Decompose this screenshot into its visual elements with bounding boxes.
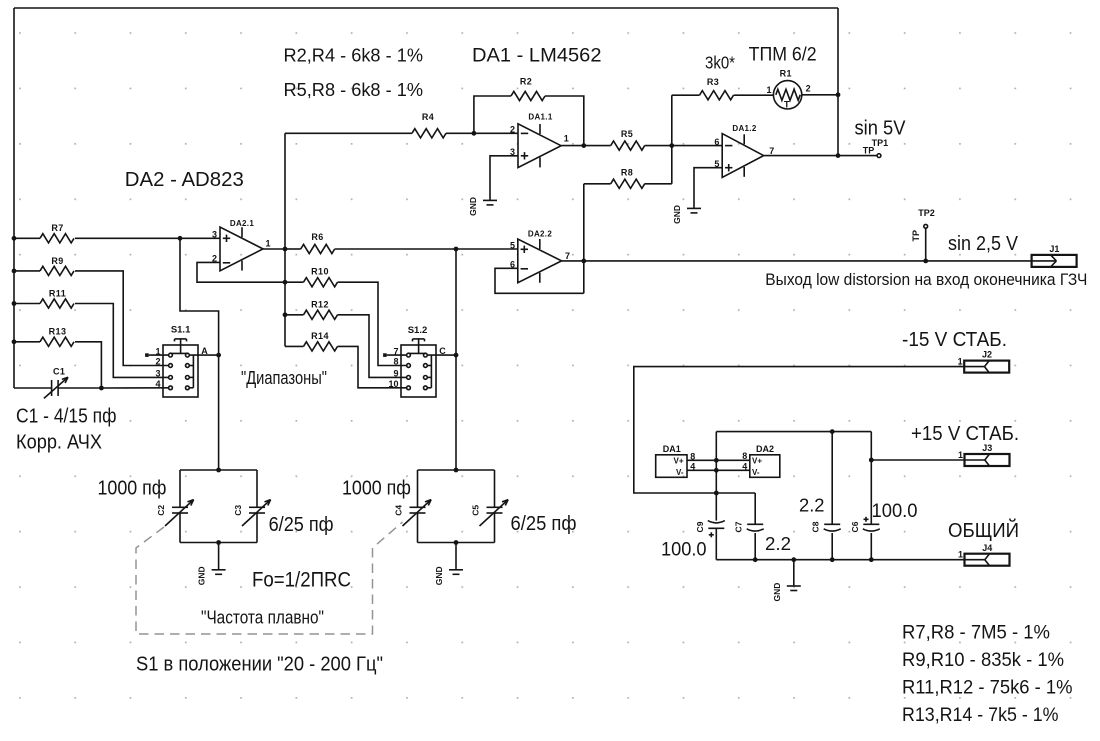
wire tank1 top xyxy=(180,469,257,471)
resistor R13 xyxy=(14,327,101,388)
svg-text:2: 2 xyxy=(806,83,811,93)
svg-text:R1: R1 xyxy=(780,68,792,78)
svg-text:4: 4 xyxy=(742,461,747,471)
label output note xyxy=(765,271,1087,289)
node R7 output junction xyxy=(178,236,183,241)
thermistor R1 xyxy=(766,68,810,109)
wire feedback loop top xyxy=(14,7,838,9)
label C9 value 100.0 xyxy=(661,540,707,561)
op-amp DA2.2 xyxy=(510,229,570,282)
svg-text:6/25 пф: 6/25 пф xyxy=(269,514,334,536)
wire feedback loop right drop to output xyxy=(837,8,839,156)
svg-text:3: 3 xyxy=(212,230,217,240)
svg-text:"Диапазоны": "Диапазоны" xyxy=(241,368,327,388)
capacitor C3 variable xyxy=(233,470,271,543)
node C1 R13 junction xyxy=(99,386,104,391)
svg-text:2: 2 xyxy=(510,125,515,135)
node A junction xyxy=(216,353,221,358)
svg-text:GND: GND xyxy=(772,583,782,602)
svg-text:9: 9 xyxy=(393,369,398,379)
svg-text:100.0: 100.0 xyxy=(661,540,707,561)
resistor R2 feedback xyxy=(474,77,584,146)
svg-text:1000 пф: 1000 пф xyxy=(342,478,411,500)
svg-text:C6: C6 xyxy=(850,521,860,532)
wire R8 to DA2.2 output vertical xyxy=(583,184,585,293)
svg-text:1000 пф: 1000 пф xyxy=(98,478,167,500)
capacitor C9 xyxy=(695,521,725,560)
wire power pins vertical xyxy=(715,432,717,521)
label S1 position xyxy=(136,654,383,676)
label R11 R12 values xyxy=(902,678,1073,699)
svg-text:1: 1 xyxy=(766,85,771,95)
wire tank1 to ground xyxy=(218,543,220,570)
svg-text:"Частота плавно": "Частота плавно" xyxy=(201,607,324,627)
ground tank1 xyxy=(197,566,226,585)
svg-text:R12: R12 xyxy=(311,299,329,309)
resistor R8 xyxy=(584,167,672,188)
node sin5V junction xyxy=(836,153,841,158)
svg-text:S1 в положении "20 - 200 Гц": S1 в положении "20 - 200 Гц" xyxy=(136,654,383,676)
wire tank2 top xyxy=(418,469,495,471)
label 6/25 pf tank2 xyxy=(511,513,577,535)
svg-text:R10: R10 xyxy=(311,267,329,277)
resistor R10 xyxy=(285,267,407,366)
svg-text:C5: C5 xyxy=(471,505,481,516)
label R7 R8 values xyxy=(902,623,1050,644)
svg-text:6: 6 xyxy=(714,137,719,147)
ground tank2 xyxy=(434,566,463,585)
svg-text:-15 V СТАБ.: -15 V СТАБ. xyxy=(902,329,1007,351)
svg-text:7: 7 xyxy=(769,146,774,156)
ground DA1.2 xyxy=(672,205,701,224)
svg-text:1: 1 xyxy=(958,550,963,560)
wire DA1.1 output row xyxy=(561,145,611,147)
svg-text:J4: J4 xyxy=(982,543,992,553)
node loop top junction xyxy=(836,92,841,97)
svg-text:V+: V+ xyxy=(673,457,683,466)
svg-text:Fo=1/2ПRC: Fo=1/2ПRC xyxy=(252,569,351,592)
svg-text:R13,R14 - 7k5 - 1%: R13,R14 - 7k5 - 1% xyxy=(902,705,1059,726)
resistor R11 xyxy=(14,288,169,377)
wire rail to ground xyxy=(793,560,795,586)
svg-text:8: 8 xyxy=(690,451,695,461)
capacitor C2 variable xyxy=(156,470,194,543)
svg-text:DA2 - AD823: DA2 - AD823 xyxy=(125,169,244,191)
node +15V junction xyxy=(869,458,874,463)
svg-text:V-: V- xyxy=(752,468,760,477)
svg-text:DA2.1: DA2.1 xyxy=(230,219,254,228)
label R5 R8 values xyxy=(284,79,424,100)
wire R7 junction to S1.1 common A xyxy=(180,238,219,470)
label -15V xyxy=(902,329,1007,351)
svg-text:3: 3 xyxy=(155,369,160,379)
svg-text:Выход low distorsion на вход о: Выход low distorsion на вход оконечника … xyxy=(765,271,1087,289)
svg-text:sin 2,5 V: sin 2,5 V xyxy=(948,233,1019,255)
svg-text:DA1: DA1 xyxy=(663,444,681,454)
svg-text:5: 5 xyxy=(510,240,515,250)
label sin 2,5 V xyxy=(948,233,1019,255)
label C8 value 2.2 xyxy=(799,494,825,515)
node R11 left bus junction xyxy=(12,301,17,306)
svg-text:C1 - 4/15 пф: C1 - 4/15 пф xyxy=(16,405,117,427)
capacitor C8 xyxy=(811,432,841,560)
label R2 R4 values xyxy=(284,45,424,66)
connector J1 xyxy=(1032,244,1077,267)
label Korr ACH xyxy=(16,431,102,453)
svg-text:C1: C1 xyxy=(53,366,65,376)
label R3 value 3k0 xyxy=(705,53,735,73)
node rail C7 xyxy=(753,557,758,562)
wire -15V rail xyxy=(634,367,964,493)
svg-text:S1.2: S1.2 xyxy=(408,325,428,336)
label sin 5V xyxy=(855,118,907,140)
svg-text:4: 4 xyxy=(155,379,160,389)
resistor R6 xyxy=(285,232,518,254)
label C7 value 2.2 xyxy=(765,533,791,554)
svg-text:1: 1 xyxy=(155,346,160,356)
svg-text:TP2: TP2 xyxy=(918,208,935,218)
resistor R7 xyxy=(14,223,220,243)
resistor R14 xyxy=(285,331,407,388)
svg-text:GND: GND xyxy=(468,197,478,216)
label C6 value 100.0 xyxy=(872,501,918,522)
capacitor C6 xyxy=(850,432,880,560)
svg-text:J1: J1 xyxy=(1049,244,1059,254)
op-amp DA1.1 xyxy=(510,113,569,168)
node tank2 top junction xyxy=(454,468,459,473)
label TPM 6/2 xyxy=(749,45,817,66)
svg-text:S1.1: S1.1 xyxy=(171,324,191,335)
svg-text:R7: R7 xyxy=(51,223,63,233)
svg-text:8: 8 xyxy=(742,451,747,461)
node rail GND xyxy=(791,557,796,562)
node tank1 bottom junction xyxy=(216,540,221,545)
svg-text:C8: C8 xyxy=(811,521,821,532)
svg-text:V-: V- xyxy=(676,468,684,477)
wire tank1 bottom xyxy=(180,542,257,544)
svg-text:R5,R8 - 6k8 - 1%: R5,R8 - 6k8 - 1% xyxy=(284,79,424,100)
wire V+ top rail xyxy=(716,431,871,433)
svg-text:R7,R8 - 7M5 - 1%: R7,R8 - 7M5 - 1% xyxy=(902,623,1050,644)
label +15V xyxy=(911,423,1019,445)
node C junction xyxy=(454,353,459,358)
svg-text:C2: C2 xyxy=(156,505,166,516)
svg-text:C9: C9 xyxy=(695,521,705,532)
label 6/25 pf tank1 xyxy=(269,514,334,536)
svg-text:C4: C4 xyxy=(394,505,404,516)
label R9 R10 values xyxy=(902,650,1064,671)
node DA1.1 inverting input junction xyxy=(472,131,477,136)
node R6 to S1.2 C junction xyxy=(454,247,459,252)
label Diapazony xyxy=(241,368,327,388)
node bus R10 xyxy=(283,280,288,285)
wire tank2 bottom xyxy=(418,542,495,544)
capacitor C5 variable xyxy=(471,470,509,543)
wire DA2.1 output xyxy=(263,248,285,250)
node DA1.1 output feedback junction xyxy=(581,143,586,148)
svg-text:TP: TP xyxy=(863,146,875,156)
svg-text:ТПМ 6/2: ТПМ 6/2 xyxy=(749,45,817,66)
svg-text:7: 7 xyxy=(393,346,398,356)
svg-text:2.2: 2.2 xyxy=(799,494,825,515)
resistor R3 xyxy=(672,77,774,100)
resistor R12 xyxy=(285,299,407,377)
svg-text:3k0*: 3k0* xyxy=(705,53,735,73)
testpoint TP2 xyxy=(911,208,935,261)
svg-text:R11,R12 - 75k6 - 1%: R11,R12 - 75k6 - 1% xyxy=(902,678,1073,699)
wire feedback loop left bus xyxy=(13,8,15,388)
node bus R6 xyxy=(283,247,288,252)
svg-text:1: 1 xyxy=(564,133,569,143)
power box DA1 xyxy=(656,444,717,478)
svg-text:R14: R14 xyxy=(311,331,329,341)
capacitor C1 variable xyxy=(14,366,101,398)
ground power xyxy=(772,583,801,602)
svg-text:8: 8 xyxy=(393,357,398,367)
wire DA1.2 output xyxy=(764,155,878,157)
node DA1.2 summing junction xyxy=(669,143,674,148)
node pin4 junction xyxy=(714,468,719,473)
svg-text:ОБЩИЙ: ОБЩИЙ xyxy=(948,518,1019,542)
node tank2 bottom junction xyxy=(454,540,459,545)
wire +15V to J3 xyxy=(871,459,964,461)
wire summing node vertical xyxy=(671,95,673,184)
wire C1 junction to S1.1 pin4 xyxy=(101,387,168,389)
svg-text:R2,R4 - 6k8 - 1%: R2,R4 - 6k8 - 1% xyxy=(284,45,424,66)
label Fo formula xyxy=(252,569,351,592)
svg-text:DA1.2: DA1.2 xyxy=(732,124,756,133)
label DA1 type xyxy=(472,46,602,67)
wire ground rail xyxy=(716,559,964,561)
node R7 left bus junction xyxy=(12,236,17,241)
svg-text:DA1 - LM4562: DA1 - LM4562 xyxy=(472,46,602,67)
wire DA1.1 + input to ground xyxy=(490,156,518,201)
wire DA1.2 + input to ground xyxy=(694,168,722,209)
svg-text:DA2: DA2 xyxy=(756,444,774,454)
svg-text:TP: TP xyxy=(911,230,921,242)
switch S1.1 xyxy=(145,324,219,397)
wire tank2 to ground xyxy=(455,543,457,570)
svg-text:R8: R8 xyxy=(621,167,633,177)
wire DA2.1 feedback xyxy=(197,262,285,282)
capacitor C4 variable xyxy=(394,470,432,543)
svg-text:6/25 пф: 6/25 пф xyxy=(511,513,577,535)
label Chastota plavno xyxy=(201,607,324,627)
svg-text:2.2: 2.2 xyxy=(765,533,791,554)
svg-text:R5: R5 xyxy=(621,129,633,139)
svg-text:1: 1 xyxy=(958,450,963,460)
svg-text:Корр. АЧХ: Корр. АЧХ xyxy=(16,431,102,453)
wire DA2.1 output vertical bus xyxy=(284,133,286,346)
svg-text:+15 V СТАБ.: +15 V СТАБ. xyxy=(911,423,1019,445)
svg-text:J2: J2 xyxy=(982,350,992,360)
node pin8 junction xyxy=(714,458,719,463)
label C1 value xyxy=(16,405,117,427)
op-amp DA1.2 xyxy=(714,124,774,177)
node rail C6 xyxy=(869,557,874,562)
svg-text:R2: R2 xyxy=(520,77,532,87)
svg-text:1: 1 xyxy=(958,356,963,366)
svg-text:C7: C7 xyxy=(734,521,744,532)
wire R1 to loop xyxy=(802,94,838,96)
svg-text:100.0: 100.0 xyxy=(872,501,918,522)
svg-text:R9,R10 - 835k - 1%: R9,R10 - 835k - 1% xyxy=(902,650,1064,671)
label DA2 type xyxy=(125,169,244,191)
svg-text:R13: R13 xyxy=(49,327,67,337)
svg-text:R9: R9 xyxy=(51,256,63,266)
switch S1.2 xyxy=(383,325,456,397)
svg-text:V+: V+ xyxy=(752,457,762,466)
node bus R12 xyxy=(283,312,288,317)
resistor R9 xyxy=(14,256,169,366)
svg-text:sin 5V: sin 5V xyxy=(855,118,907,140)
svg-text:7: 7 xyxy=(565,251,570,261)
svg-text:1: 1 xyxy=(266,239,271,249)
svg-text:GND: GND xyxy=(672,205,682,224)
power box DA2 xyxy=(716,444,780,478)
svg-text:GND: GND xyxy=(434,566,444,585)
testpoint TP1 xyxy=(863,138,888,158)
node DA2.2 output feedback junction xyxy=(581,259,586,264)
svg-text:2: 2 xyxy=(155,357,160,367)
node C8 top junction xyxy=(830,429,835,434)
svg-text:C3: C3 xyxy=(233,505,243,516)
node TP2 junction xyxy=(923,259,928,264)
svg-text:R11: R11 xyxy=(49,288,66,298)
svg-text:R6: R6 xyxy=(311,232,323,242)
label OBSHCHIY xyxy=(948,518,1019,542)
node R9 left bus junction xyxy=(12,269,17,274)
node rail C8 xyxy=(830,557,835,562)
svg-text:GND: GND xyxy=(197,566,207,585)
mechanical gang dashed link xyxy=(136,522,403,634)
ground DA1.1 xyxy=(468,197,497,216)
node tank1 top junction xyxy=(216,468,221,473)
resistor R4 xyxy=(285,112,518,138)
svg-text:4: 4 xyxy=(690,461,695,471)
wire DA2.2 feedback xyxy=(495,268,584,293)
node V- junction xyxy=(714,491,719,496)
svg-text:DA1.1: DA1.1 xyxy=(528,113,552,122)
label R13 R14 values xyxy=(902,705,1059,726)
connector J4 xyxy=(958,543,1010,566)
label 1000 pf tank2 xyxy=(342,478,411,500)
svg-text:R4: R4 xyxy=(422,112,434,122)
wire DA2.2 output to J1 xyxy=(562,260,1032,262)
op-amp DA2.1 xyxy=(212,219,271,271)
connector J3 xyxy=(958,443,1010,466)
node R13 left bus junction xyxy=(12,339,17,344)
svg-text:DA2.2: DA2.2 xyxy=(528,229,552,238)
connector J2 xyxy=(958,350,1010,373)
svg-text:T: T xyxy=(784,100,790,110)
svg-text:R3: R3 xyxy=(707,77,719,87)
wire S1.2 common C vertical xyxy=(455,249,457,470)
resistor R5 xyxy=(611,129,723,150)
svg-text:10: 10 xyxy=(388,379,398,389)
capacitor C7 xyxy=(734,493,764,560)
label 1000 pf tank1 xyxy=(98,478,167,500)
